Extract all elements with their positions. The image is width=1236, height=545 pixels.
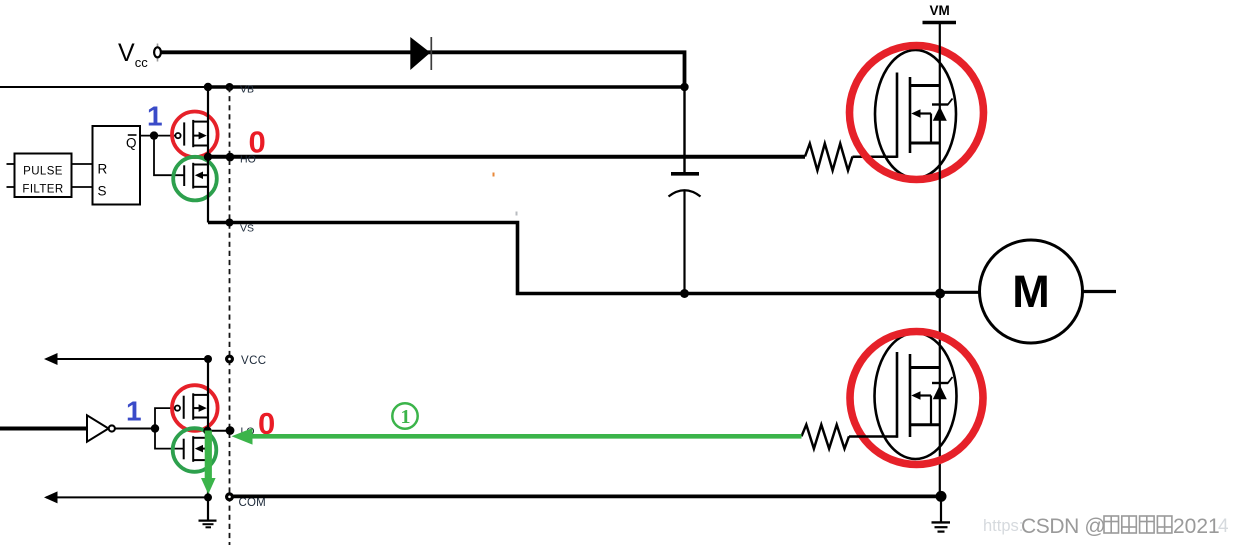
wire to low gate xyxy=(154,136,184,176)
green current arrow horizontal xyxy=(232,428,802,445)
svg-text:M: M xyxy=(1012,266,1050,317)
driver output rail high-side xyxy=(207,87,209,223)
wire Vcc to VB node xyxy=(162,52,685,87)
svg-text:Q: Q xyxy=(126,136,137,151)
wire COM left xyxy=(46,496,208,498)
svg-text:https:: https: xyxy=(983,517,1023,535)
junction VB cap xyxy=(680,83,688,91)
junction HO boundary xyxy=(226,153,235,162)
wire VCC xyxy=(46,358,208,360)
junction VB boundary xyxy=(226,83,234,91)
annotation circled 1 (green) xyxy=(392,403,417,428)
terminal VCC xyxy=(227,356,233,362)
junction LO boundary xyxy=(226,426,235,435)
wire VS xyxy=(208,223,940,294)
wire VB thin left xyxy=(0,86,208,88)
svg-text:VCC: VCC xyxy=(241,355,266,367)
VM rail bar xyxy=(923,21,957,25)
svg-text:1: 1 xyxy=(401,406,411,428)
wire IN low-side xyxy=(0,427,88,431)
junction Q node xyxy=(150,131,158,139)
wire inverter out xyxy=(115,428,155,430)
arrow VCC left xyxy=(44,353,58,365)
svg-text:4: 4 xyxy=(1218,516,1229,537)
junction COM rail right xyxy=(936,491,947,502)
svg-text:PULSE: PULSE xyxy=(23,166,63,178)
driver NMOS low LS xyxy=(184,436,208,462)
RS latch U1 xyxy=(93,126,141,205)
svg-text:2021: 2021 xyxy=(1173,515,1220,538)
motor M xyxy=(980,240,1083,343)
ground right xyxy=(932,496,951,531)
red circle upper driver LS xyxy=(172,385,218,431)
wire COM main xyxy=(233,494,941,498)
svg-text:VS: VS xyxy=(240,223,254,235)
inverter U2 xyxy=(87,415,115,441)
green circle lower driver LS xyxy=(173,428,217,472)
wire rail to motor xyxy=(940,291,980,294)
input stub S xyxy=(7,186,15,188)
junction VS boundary xyxy=(226,219,234,227)
driver PMOS high (source follower) xyxy=(175,120,208,147)
transistor Q1 (high-side MOSFET) xyxy=(875,50,956,178)
wire to low gate LS xyxy=(155,429,184,449)
svg-text:1: 1 xyxy=(126,396,142,427)
diode D1 xyxy=(410,37,431,70)
wire VB to cap xyxy=(683,87,685,172)
wire HO xyxy=(208,155,805,159)
svg-text:R: R xyxy=(98,162,108,177)
red circle Q1 xyxy=(850,46,984,180)
green circle lower driver xyxy=(173,157,217,201)
junction VB rail xyxy=(204,83,212,91)
svg-text:S: S xyxy=(98,184,107,199)
wire to high gate LS xyxy=(155,408,175,428)
resistor R1 (high gate) xyxy=(805,144,853,171)
junction inverter out xyxy=(151,424,159,432)
watermark CSDN xyxy=(1021,515,1220,538)
capacitor C1 (bootstrap) xyxy=(669,174,701,294)
IC boundary dashed line xyxy=(229,87,231,545)
wire motor right xyxy=(1083,290,1117,293)
svg-text:VM: VM xyxy=(930,3,950,18)
junction HO rail xyxy=(204,153,212,161)
svg-text:1: 1 xyxy=(147,101,163,132)
driver output rail low-side xyxy=(207,359,209,497)
green current arrow down xyxy=(201,431,216,495)
driver PMOS high LS xyxy=(175,393,208,420)
arrow COM left xyxy=(44,491,58,503)
wire VB xyxy=(208,85,685,89)
svg-text:CSDN @: CSDN @ xyxy=(1021,515,1105,538)
Vcc label xyxy=(118,39,148,70)
svg-text:COM: COM xyxy=(239,497,266,509)
watermark speck gray xyxy=(516,212,518,216)
wire filter to S xyxy=(72,186,93,188)
power rail vertical xyxy=(939,23,941,497)
wire filter to R xyxy=(72,163,93,165)
pulse filter block xyxy=(15,154,72,198)
svg-text:FILTER: FILTER xyxy=(22,184,63,196)
terminal Vcc xyxy=(157,44,159,48)
ground left xyxy=(199,497,217,527)
wire Q out xyxy=(140,135,176,137)
terminal COM xyxy=(227,494,233,500)
junction VS rail xyxy=(935,289,945,299)
junction VCC rail xyxy=(204,355,212,363)
svg-text:VB: VB xyxy=(240,84,254,96)
junction LO rail xyxy=(203,427,211,435)
junction VS cap xyxy=(680,289,689,298)
wire R2 to gate xyxy=(849,435,898,438)
junction COM rail xyxy=(204,493,212,501)
wire LO xyxy=(208,430,230,432)
driver NMOS low xyxy=(184,163,208,189)
watermark speck orange xyxy=(493,173,495,177)
red circle Q2 xyxy=(850,332,983,465)
transistor Q2 (low-side MOSFET) xyxy=(875,333,957,459)
resistor R2 (low gate) xyxy=(802,425,850,449)
red circle upper driver xyxy=(172,112,218,158)
svg-text:0: 0 xyxy=(249,125,266,160)
input stub R xyxy=(7,163,15,165)
wire R1 to gate xyxy=(853,156,898,159)
